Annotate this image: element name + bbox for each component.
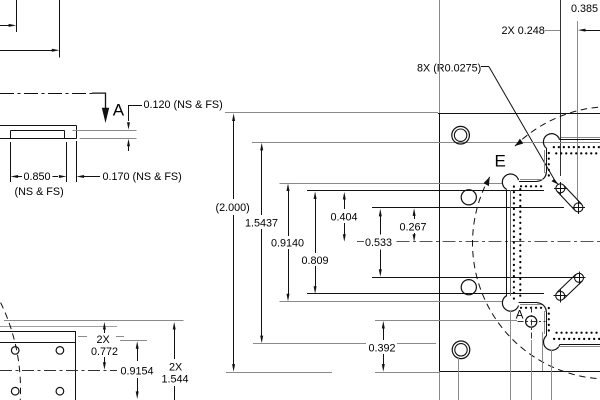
dimension 1.5437 [245,143,278,343]
stitching dots top-right [554,147,600,153]
dimension 0.120 leader and arrows [127,106,142,152]
gasket channel stem-to-arm corner [537,172,546,181]
svg-text:(2.000): (2.000) [216,202,250,214]
bottom-left view hole 1 [11,347,19,355]
vertical extension line x=578 [577,21,579,201]
detail boundary arc on bottom-left view [1,303,21,400]
gray extension lines below part [440,311,552,400]
gasket channel top arm run [519,180,546,187]
gasket channel top-right run [560,138,600,140]
datum target A symbol [516,307,546,340]
top-left extension line 2 [59,0,61,58]
vertical extension line to part corner [439,0,441,113]
label 0.385 [571,3,598,15]
gray extension line y=301.8 [280,301,504,303]
dimension 2X 0.772 [91,322,118,370]
hole S2 [461,280,476,295]
bottom-left view centerline [0,370,117,372]
svg-text:2X 0.248: 2X 0.248 [502,25,545,37]
svg-text:(NS & FS): (NS & FS) [15,186,64,198]
dimension 2X 0.248 [502,25,600,37]
gasket channel stem [545,148,549,177]
detail E boundary arc (upper segment) [515,107,598,146]
feature line y=207.8 [372,207,564,209]
upper diagonal slot with target circles [554,182,585,214]
svg-text:0.404: 0.404 [331,212,358,224]
svg-text:0.170 (NS & FS): 0.170 (NS & FS) [103,171,182,183]
centerline y=241.8 [357,241,600,243]
dimension 0.850 [11,171,67,198]
feature line y=293.8 [307,293,544,295]
dimension 0.392 [369,321,396,372]
section label A [113,101,125,120]
gray extension line y=142.3 [252,142,600,144]
gray extension line y=320.6 (left and right segments) [4,320,517,322]
detail E part outline (top, left, bottom edges) [438,113,600,372]
svg-text:2X: 2X [169,362,182,374]
gasket channel spine [507,187,521,300]
label 8X (R0.0275) with leader [417,63,559,186]
svg-text:0.120 (NS & FS): 0.120 (NS & FS) [144,99,223,111]
svg-text:0.772: 0.772 [91,346,118,358]
bottom-left view hole 2 [56,347,64,355]
svg-text:0.809: 0.809 [302,255,329,267]
gasket channel arm-to-spine corner blob [502,174,518,189]
counterbored hole D2 [452,341,470,359]
gasket channel arm2-to-stem2 corner [537,303,546,312]
dimension 0.170 (NS & FS) [77,171,182,183]
svg-text:0.392: 0.392 [369,343,396,355]
bottom-left part view outline [0,331,76,400]
extension lines for 0.850 and 0.170 [11,141,77,182]
feature line y=190.4 [307,190,544,192]
dimension 0.404 [331,192,358,242]
dimension 0.809 [302,191,329,293]
projection lines from cross-section [73,131,137,139]
svg-text:0.9140: 0.9140 [271,238,304,250]
gray extension line y=326.7 [0,326,117,328]
detail E boundary arc (lower segment) [473,177,600,379]
detail label E [495,152,506,171]
gray extension line y=372.2 [226,372,439,374]
gasket channel spine-to-bottom corner blob [502,296,518,312]
svg-text:A: A [113,101,125,120]
dimension 0.533 [365,209,392,277]
svg-text:0.385: 0.385 [571,3,598,15]
gray extension line y=183 [280,183,504,185]
gray extension line y=343.8 [253,343,436,345]
svg-text:0.267: 0.267 [400,222,427,234]
svg-text:1.5437: 1.5437 [245,218,278,230]
dimension 0.120 (NS & FS) label [144,99,223,111]
top-left dimension arrow 2 [0,49,59,52]
hole S1 [461,190,476,205]
dimension 2X 1.544 [162,322,189,400]
dimension 0.267 [400,208,427,242]
gasket channel bottom arm run [519,303,547,308]
section cutting plane line A [0,93,106,109]
stitching dots bottom-right [554,333,600,339]
dimension 0.9154 [120,341,154,400]
svg-text:0.850: 0.850 [24,171,51,183]
gasket channel stem2 [545,308,549,336]
svg-text:A: A [516,310,524,322]
svg-text:8X (R0.0275): 8X (R0.0275) [417,63,481,75]
top-left extension line 1 [16,0,18,32]
gasket channel head corner (tab) [543,134,559,148]
gasket channel bottom-right run [558,345,600,347]
part cross-section (section A-A plate) [0,126,77,139]
dimension (2.000) [216,113,250,371]
bottom-left view hole 4 [56,387,64,395]
top-left dimension arrow 1 [0,24,16,27]
dimension 0.9140 [271,183,304,301]
section arrow A [102,108,109,123]
gray extension line y=112.8 [225,112,438,114]
bottom-left view hole 3 [11,387,19,395]
svg-text:0.533: 0.533 [365,237,392,249]
svg-text:E: E [495,152,506,171]
small gray break dashes near 2X [78,336,124,338]
gasket channel bottom head corner [544,336,560,350]
feature line y=277 [372,277,586,279]
svg-text:2X: 2X [97,334,110,346]
lower diagonal slot with target circles [554,271,586,302]
svg-text:0.9154: 0.9154 [121,366,154,378]
vertical extension line x=560 [560,0,562,176]
counterbored hole D1 [452,126,470,144]
svg-text:1.544: 1.544 [162,374,189,386]
